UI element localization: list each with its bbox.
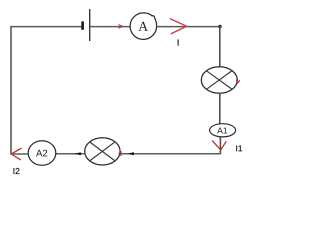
red current arrow I1 (downward) <box>212 141 226 150</box>
junction node top-right <box>218 25 222 29</box>
large red current arrow I on top wire <box>170 19 186 34</box>
wire right vertical middle (lamp to A1) <box>219 93 221 125</box>
wire left vertical <box>10 26 12 154</box>
lamp L1 cross <box>206 71 232 90</box>
ammeter A1 label <box>217 127 227 133</box>
red current arrow I2 (leftward at corner) <box>11 148 21 159</box>
lamp L2 (bottom) ellipse <box>85 138 120 165</box>
wire top-left horizontal (battery negative lead) <box>11 26 82 28</box>
ammeter label A <box>138 22 148 31</box>
lamp L1 (right) ellipse <box>201 67 237 94</box>
label I2 <box>14 168 20 174</box>
battery negative plate (short thick bar) <box>81 21 84 29</box>
ammeter A2 label <box>36 150 47 157</box>
small red current arrow on wire before ammeter <box>118 25 123 29</box>
wire battery to ammeter A <box>90 26 130 28</box>
small red arrow at lamp L2 right edge <box>119 152 122 156</box>
ammeter U1 circle <box>130 13 157 40</box>
ammeter A1 ellipse <box>210 124 236 137</box>
battery positive plate (long thin line) <box>89 9 91 41</box>
wire ammeter to top-right corner <box>157 26 221 28</box>
black current arrowhead on bottom wire left of lamp <box>75 152 81 155</box>
small red arrow at lamp L1 right edge <box>236 80 240 83</box>
wire bottom left segment (A2 to corner) <box>11 153 28 155</box>
label I1 <box>236 145 242 151</box>
wire right vertical upper (corner to lamp) <box>219 27 221 68</box>
ammeter A2 circle <box>28 141 56 166</box>
wire bottom right segment (corner to lamp L2) <box>120 153 221 155</box>
label I <box>143 40 214 46</box>
lamp L2 cross <box>90 142 116 161</box>
wire bottom middle segment (lamp L2 to A2) <box>56 153 85 155</box>
black current arrowhead on bottom wire right of lamp <box>128 152 134 155</box>
wire right vertical lower (A1 to bottom corner) <box>219 137 221 154</box>
